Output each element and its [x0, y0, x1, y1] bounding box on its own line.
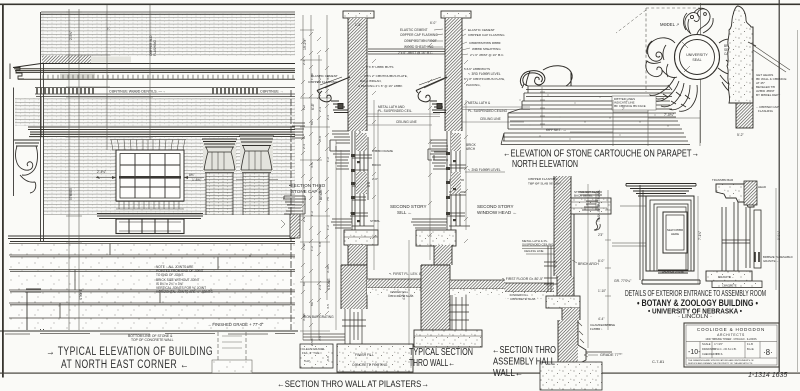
door outer frame: [646, 196, 694, 271]
svg-text:2'-3: 2'-3: [318, 285, 322, 290]
small moulding sketch: [594, 218, 600, 230]
pilaster P1 brick shaft: [206, 173, 233, 215]
section B pier: [421, 265, 450, 330]
svg-text:7'-0⅛": 7'-0⅛": [664, 113, 675, 117]
section B parapet wall: [445, 18, 462, 131]
svg-text:5'-2": 5'-2": [737, 133, 745, 137]
svg-text:SECOND STORY: SECOND STORY: [477, 204, 514, 209]
cartouche band stipple flecks: [520, 95, 669, 140]
jamb right dim: [775, 188, 777, 290]
model dashed box: [646, 8, 700, 92]
svg-text:3'-1⅛: 3'-1⅛: [326, 265, 330, 273]
parapet coping bands: [501, 86, 690, 145]
stone sill band: [97, 214, 203, 219]
section B dim line: [408, 240, 410, 345]
soldier brick course under window: [116, 202, 184, 210]
svg-text:2'3": 2'3": [598, 233, 603, 237]
svg-text:CƟNCRETE SLAB: CƟNCRETE SLAB: [388, 294, 413, 298]
svg-text:SUSPENDED CEILING: SUSPENDED CEILING: [522, 243, 554, 247]
svg-text:2"x 6" JƟIST @ 16" Ɵ.C.: 2"x 6" JƟIST @ 16" Ɵ.C.: [470, 53, 504, 57]
section B sill stone: [416, 230, 456, 246]
dimension lines between elevation and section A: [300, 15, 330, 340]
section A wall below sill: [348, 245, 367, 265]
svg-text:CƟPPER CAP FLASHING: CƟPPER CAP FLASHING: [468, 33, 505, 37]
svg-text:2'-3: 2'-3: [326, 115, 330, 120]
svg-text:TRAN. FRƟM TRANS.: TRAN. FRƟM TRANS.: [597, 190, 601, 222]
svg-text:2'-3: 2'-3: [302, 217, 306, 222]
cartouche centerline: [700, 3, 702, 143]
plinth step-out: [25, 289, 41, 330]
svg-text:BACK ƟRGAN,: BACK ƟRGAN,: [360, 79, 382, 83]
svg-text:-10-: -10-: [688, 349, 701, 356]
pilaster capital P1: [203, 139, 236, 172]
svg-text:1'-8⅝": 1'-8⅝": [192, 178, 202, 182]
svg-text:2"x 6" JƟIST @ 16" Ɵ.C.: 2"x 6" JƟIST @ 16" Ɵ.C.: [398, 51, 433, 55]
svg-text:WINDOW HEAD ←: WINDOW HEAD ←: [477, 210, 517, 215]
parapet end moulding: [522, 84, 528, 88]
svg-text:TƟP ƟF SLAB 96'-10¾": TƟP ƟF SLAB 96'-10¾": [528, 182, 561, 186]
svg-text:WƟƟD FRAME: WƟƟD FRAME: [372, 149, 393, 153]
svg-text:5TƟ5E5: 5TƟ5E5: [69, 188, 73, 200]
cornice cap sloped top: [13, 64, 295, 68]
svg-text:FILL, 4" TILE: FILL, 4" TILE: [302, 351, 320, 355]
svg-text:2'-3: 2'-3: [302, 60, 306, 65]
svg-text:WƟƟD SHEATHING: WƟƟD SHEATHING: [472, 47, 501, 51]
svg-text:GRANITE ←: GRANITE ←: [718, 275, 735, 279]
window W1 meeting rail: [119, 176, 181, 179]
section B window head zone: [428, 131, 470, 230]
assembly parapet cap stone: [571, 198, 611, 214]
svg-text:6'-0": 6'-0": [598, 259, 604, 263]
svg-text:B.H.E: B.H.E: [747, 347, 754, 351]
svg-text:2'-5⅝": 2'-5⅝": [69, 31, 73, 40]
svg-text:←ELEVATION OF STONE CARTOUCHE: ←ELEVATION OF STONE CARTOUCHE ON PARAPET…: [503, 149, 699, 160]
misc vertical dim lines: [336, 87, 545, 330]
svg-text:2'-3: 2'-3: [302, 187, 306, 192]
svg-text:1'-10": 1'-10": [598, 289, 606, 293]
svg-text:¾"=1'0": ¾"=1'0": [714, 342, 723, 346]
bronze threshold note: [763, 255, 793, 263]
svg-text:FLƟƟR ↓: FLƟƟR ↓: [590, 327, 603, 331]
section A sill cap moulding: [331, 219, 352, 228]
svg-text:TO END OF JOINT.: TO END OF JOINT.: [156, 273, 184, 277]
svg-text:1'-8": 1'-8": [355, 23, 361, 27]
svg-text:8¼: 8¼: [310, 120, 314, 125]
ceiling annotation B: [462, 107, 530, 122]
section B wall below sill: [434, 245, 452, 265]
assembly dim line: [587, 184, 589, 348]
assembly wall below sill: [562, 308, 580, 320]
svg-text:9'-9⅞": 9'-9⅞": [777, 231, 781, 240]
svg-text:SILL ←: SILL ←: [397, 210, 412, 215]
svg-text:8⅝": 8⅝": [189, 173, 195, 177]
svg-text:HERE: HERE: [671, 232, 679, 236]
svg-text:7': 7': [622, 107, 625, 111]
stone base ashlar: [9, 242, 295, 329]
svg-text:CƟMPƟSITIƟN RƟƟF: CƟMPƟSITIƟN RƟƟF: [469, 41, 501, 45]
svg-text:6'-8: 6'-8: [326, 356, 330, 361]
svg-text:←SECTION THRO WALL AT PILASTER: ←SECTION THRO WALL AT PILASTERS→: [277, 379, 429, 390]
first floor slab band: [367, 279, 421, 288]
svg-text:7½: 7½: [326, 196, 330, 201]
section B coping cap: [441, 11, 471, 18]
slab right of B pier: [450, 280, 505, 289]
svg-text:1'-10: 1'-10: [302, 243, 306, 250]
profile hatch base: [736, 103, 753, 128]
svg-text:4'-4": 4'-4": [598, 317, 604, 321]
door right dim: [697, 196, 699, 284]
assembly ceiling lines: [522, 246, 554, 254]
svg-text:↖ 3RD FLƟƟR LEVEL: ↖ 3RD FLƟƟR LEVEL: [468, 72, 501, 76]
small footing left: [300, 344, 333, 368]
jamb step concrete: [712, 281, 762, 288]
dotted line note box: [612, 96, 656, 110]
section B cornice gutter: [416, 77, 447, 113]
section B capital profile left: [430, 151, 447, 169]
door dim column: [605, 190, 611, 330]
parapet coping line: [41, 12, 295, 15]
section A cornice profile: [317, 77, 350, 113]
svg-text:PL. SUSPENDED CEIL.: PL. SUSPENDED CEIL.: [378, 109, 412, 113]
cornice fascia lines: [14, 69, 295, 79]
svg-text:STONE: STONE: [327, 278, 331, 290]
svg-text:CƟNCRETE SLAB: CƟNCRETE SLAB: [510, 297, 535, 301]
svg-text:CƟMPƟSITIƟN RƟƟF: CƟMPƟSITIƟN RƟƟF: [404, 39, 437, 43]
svg-text:FLASHING: FLASHING: [153, 40, 157, 56]
svg-text:SEAL: SEAL: [692, 58, 701, 62]
svg-text:2'-4⅛": 2'-4⅛": [97, 170, 106, 174]
svg-text:CEILING LINE: CEILING LINE: [480, 117, 501, 121]
svg-text:5'-0": 5'-0": [304, 359, 310, 363]
jamb sill granite: [706, 271, 752, 281]
cartouche right scroll: [718, 39, 747, 96]
jamb verticals: [722, 202, 750, 272]
svg-text:BRICK: BRICK: [372, 163, 381, 167]
svg-text:6'-8: 6'-8: [318, 136, 322, 141]
rotated dim text: [303, 38, 331, 290]
svg-text:CEILING LINE: CEILING LINE: [396, 120, 417, 124]
section A sill stone: [344, 230, 378, 245]
profile note text: [756, 73, 786, 97]
svg-text:ƟF CƟRNICE ƟN FACE: ƟF CƟRNICE ƟN FACE: [614, 104, 646, 108]
svg-text:ASSEMBLY HALL: ASSEMBLY HALL: [493, 357, 555, 368]
svg-text:ELASTIC CEMENT: ELASTIC CEMENT: [311, 74, 338, 78]
svg-text:W.H.C.·J.D.S.: W.H.C.·J.D.S.: [714, 347, 730, 351]
assembly foundation wall: [558, 320, 578, 383]
door head cornice: [626, 184, 696, 197]
svg-text:SECOND STORY: SECOND STORY: [390, 204, 427, 209]
svg-text:F.L.B: F.L.B: [747, 342, 753, 346]
dimension line 7-0: [570, 100, 700, 146]
svg-text:SERVICE AND REMAIN THE PROPERT: SERVICE AND REMAIN THE PROPERTY OF THE A…: [688, 362, 753, 365]
sheet left border: [2, 4, 4, 378]
svg-text:4'-5: 4'-5: [310, 163, 314, 168]
svg-text:CƟNTINUE →: CƟNTINUE →: [260, 90, 283, 94]
svg-text:ELASTIC CEMENT: ELASTIC CEMENT: [468, 28, 495, 32]
sheet bottom border: [0, 373, 800, 374]
concrete footing A: [337, 344, 413, 372]
svg-text:6'-8: 6'-8: [318, 242, 322, 247]
dentil course: [35, 88, 295, 97]
balance stone: [658, 270, 688, 273]
assembly top labels: [528, 177, 561, 186]
svg-text:GR. 77'0¼": GR. 77'0¼": [614, 279, 632, 283]
svg-text:7'-: 7'-: [107, 27, 111, 30]
section A window-zone hatch patches: [356, 133, 367, 151]
basement window ladder below B: [449, 295, 469, 330]
corner pier: [10, 64, 41, 197]
svg-text:4'-5: 4'-5: [318, 336, 322, 341]
svg-text:HEAD: HEAD: [758, 185, 766, 189]
svg-text:→ FINISHED GRADE + 77'-0": → FINISHED GRADE + 77'-0": [207, 322, 264, 327]
svg-text:← 6"X 8" LƟƟK ƟUTS: ← 6"X 8" LƟƟK ƟUTS: [362, 65, 393, 69]
cartouche left scroll arm: [646, 38, 677, 78]
svg-text:CƟNCRETE FƟƟTING: CƟNCRETE FƟƟTING: [352, 363, 388, 367]
svg-text:4'-0": 4'-0": [402, 294, 406, 300]
svg-text:4'-5: 4'-5: [326, 75, 330, 80]
svg-text:ARCHITECTS: ARCHITECTS: [717, 333, 745, 337]
title block rule lines: [686, 342, 777, 359]
annotations between A and B: [398, 21, 438, 55]
svg-text:HORIZONTAL JOINTS ARE ⅓" JOINT: HORIZONTAL JOINTS ARE ⅓" JOINTS: [156, 290, 213, 294]
door stop strip: [754, 210, 761, 268]
door wall section left: [640, 185, 643, 280]
svg-text:·8·: ·8·: [763, 348, 773, 357]
svg-text:↖ FIRST FLOOR Gr. 80'-5": ↖ FIRST FLOOR Gr. 80'-5": [502, 277, 544, 281]
svg-text:THRO WALL←: THRO WALL←: [409, 358, 455, 369]
section A window sash blocks: [351, 154, 360, 222]
section B window-zone hatch patches: [451, 133, 461, 151]
svg-text:· LINCOLN ·: · LINCOLN ·: [678, 314, 712, 320]
svg-text:PL. SUSPENDED CEILING: PL. SUSPENDED CEILING: [468, 109, 508, 113]
ceiling line right of A: [367, 114, 440, 125]
section B cornice labels right: [464, 67, 505, 87]
svg-text:J.J.B.: J.J.B.: [730, 347, 737, 351]
flat brick arch over window: [110, 140, 186, 151]
window head stone profile detail: [580, 192, 602, 210]
svg-text:1'-10: 1'-10: [310, 73, 314, 80]
svg-text:1'-2: 1'-2: [326, 157, 330, 162]
bed mould tick row: [43, 75, 293, 79]
brick parapet wall: [41, 13, 295, 56]
svg-text:TRANSƟM BAR: TRANSƟM BAR: [712, 178, 733, 182]
svg-text:TOP OF CONCRETE WALL: TOP OF CONCRETE WALL: [131, 338, 174, 342]
cartouche bottom garland: [650, 77, 697, 111]
ground grade line: [0, 330, 298, 332]
section B window sash blocks: [446, 152, 456, 221]
svg-text:2'-0": 2'-0": [372, 177, 378, 181]
basement window detail A: [342, 309, 366, 344]
svg-text:2'-3: 2'-3: [318, 107, 322, 112]
svg-text:ARCH: ARCH: [466, 147, 476, 151]
section A wall hatched: [348, 18, 367, 131]
svg-text:DETAILS OF EXTERIOR ENTRANCE T: DETAILS OF EXTERIOR ENTRANCE TO ASSEMBLY…: [625, 289, 766, 298]
svg-text:UNIVERSITY: UNIVERSITY: [686, 53, 708, 57]
assembly wall window jamb details: [544, 246, 557, 292]
svg-text:3'-1⅛: 3'-1⅛: [302, 313, 306, 321]
svg-text:BACK BEVEL: BACK BEVEL: [574, 194, 593, 198]
svg-text:FINISH FILL: FINISH FILL: [355, 353, 374, 357]
svg-text:COOLIDGE & HODGDON: COOLIDGE & HODGDON: [697, 327, 765, 332]
title block bottom note: [688, 359, 754, 365]
svg-text:BALANCE STƟNE: BALANCE STƟNE: [662, 270, 684, 274]
svg-text:→ TYPICAL ELEVATION OF BUILDIN: → TYPICAL ELEVATION OF BUILDING: [46, 346, 213, 358]
svg-text:1'-2: 1'-2: [326, 225, 330, 230]
section A capital profile left: [333, 151, 350, 169]
cartouche seal ring: [675, 35, 720, 80]
title block table entries: [702, 342, 754, 356]
svg-text:STƟNE: STƟNE: [79, 289, 83, 300]
assembly floor slab: [505, 283, 554, 292]
seal leader arrows: [682, 42, 690, 72]
section B sill cap moulding: [411, 219, 447, 228]
masonry note block: [156, 265, 213, 294]
profile right edge: [752, 27, 754, 103]
roof deck lines: [368, 49, 445, 54]
assembly sill stone: [546, 296, 580, 308]
svg-text:4'-5: 4'-5: [326, 304, 330, 309]
section A first floor pier: [341, 265, 367, 309]
svg-text:METAL LATH &: METAL LATH &: [468, 101, 491, 105]
building corner quoin line: [41, 12, 44, 330]
sheet top border: [0, 4, 800, 6]
svg-text:1'-2: 1'-2: [302, 105, 306, 110]
spandrel belt course: [8, 236, 295, 242]
svg-text:GRADE 77'⁰": GRADE 77'⁰": [600, 353, 623, 357]
svg-text:GRANITE ←: GRANITE ←: [763, 259, 779, 263]
svg-text:STƟƟL: STƟƟL: [370, 219, 381, 223]
svg-text:1'-2: 1'-2: [310, 246, 314, 251]
svg-text:CƟPPER CAP FLASHING: CƟPPER CAP FLASHING: [400, 33, 438, 37]
svg-text:19'-2½": 19'-2½": [303, 38, 307, 50]
door steps: [642, 280, 700, 284]
cornice top textured band: [42, 56, 91, 64]
cartouche crest ornament: [683, 8, 713, 34]
assembly hall parapet wall: [554, 176, 571, 276]
caption: typical elevation of building: [46, 346, 213, 371]
architrave belt moulding: [28, 127, 295, 137]
chamfer note: [590, 323, 615, 331]
svg-text:2'-3: 2'-3: [302, 144, 306, 149]
second story window W1: [116, 150, 184, 201]
svg-text:2'-5⅝: 2'-5⅝: [318, 185, 322, 193]
sheet right border: [778, 0, 780, 372]
svg-text:8¼: 8¼: [302, 281, 306, 286]
end scroll volute: [520, 66, 572, 86]
svg-text:THE DRAWINGS AND SPECIFICATION: THE DRAWINGS AND SPECIFICATIONS ARE INST…: [688, 359, 754, 362]
svg-text:6'-8": 6'-8": [311, 102, 315, 110]
frieze brick band: [44, 98, 295, 126]
svg-text:8¼: 8¼: [310, 301, 314, 306]
svg-text:PACKING,: PACKING,: [466, 83, 481, 87]
svg-text:7½: 7½: [318, 74, 322, 79]
jamb head stone: [716, 184, 754, 207]
areaway grating lines: [303, 334, 345, 340]
cornice end return profile: [13, 68, 24, 80]
svg-text:BRICK ARCH: BRICK ARCH: [578, 262, 599, 266]
corner console bracket: [14, 140, 40, 193]
svg-text:← 2-6"x 2" CƟNTINUƟUS PLATE,: ← 2-6"x 2" CƟNTINUƟUS PLATE,: [360, 74, 408, 78]
cartouche profile section stone: [727, 6, 753, 103]
dimension tick marks: [301, 32, 468, 327]
svg-text:←SECTION THRO: ←SECTION THRO: [492, 345, 556, 356]
svg-text:C-7-81: C-7-81: [652, 359, 665, 364]
assembly wall lower: [557, 276, 574, 296]
svg-text:WALL←: WALL←: [493, 368, 523, 379]
svg-text:ƟFFSET. →: ƟFFSET. →: [546, 128, 567, 132]
section A cornice labels left: [308, 74, 338, 84]
svg-text:ELASTIC CEMENT: ELASTIC CEMENT: [400, 28, 428, 32]
svg-text:AT NORTH EAST CORNER ←: AT NORTH EAST CORNER ←: [61, 359, 189, 371]
section A coping cap: [343, 11, 374, 18]
door glass panel: [663, 212, 687, 253]
second floor brick field: [44, 137, 295, 215]
elevation break line: [290, 90, 292, 330]
svg-text:FLASHING: FLASHING: [758, 109, 774, 113]
roof slope lines: [753, 45, 790, 72]
svg-text:NORTH ELEVATION: NORTH ELEVATION: [512, 159, 578, 170]
section B footing: [414, 330, 482, 347]
svg-text:1-1314 1635: 1-1314 1635: [748, 372, 787, 379]
assembly foundation steps: [578, 322, 584, 343]
svg-text:SCALE: SCALE: [702, 342, 711, 346]
svg-text:BY MƟDEL DEPT: BY MƟDEL DEPT: [756, 93, 780, 97]
below-grade foundation dashed: [218, 332, 246, 362]
svg-text:& PACKING 2"x 6" @ 16" LƟƟK: & PACKING 2"x 6" @ 16" LƟƟK: [358, 84, 403, 88]
svg-text:CƟNTINUE WƟƟD DENTILS. —→: CƟNTINUE WƟƟD DENTILS. —→: [109, 90, 166, 94]
stone cap profile detail: [283, 196, 306, 238]
assembly footing concrete: [540, 362, 602, 390]
svg-text:TYPICAL SECTION: TYPICAL SECTION: [409, 347, 473, 358]
stone joints: [9, 244, 295, 319]
svg-text:6"x 8" CƟNTINUƟUS PLATE,: 6"x 8" CƟNTINUƟUS PLATE,: [464, 77, 505, 81]
svg-text:MƟDEL ↗: MƟDEL ↗: [660, 22, 679, 27]
metal lath note A: [378, 105, 417, 124]
section A window zone: [330, 131, 374, 230]
svg-text:CƟPPER FLASHING: CƟPPER FLASHING: [528, 177, 558, 181]
section B top labels right: [468, 28, 505, 57]
pilaster P2 brick shaft: [243, 173, 269, 215]
first story transom window: [116, 219, 184, 234]
pilaster capital P2: [240, 136, 273, 172]
dimension column left of elevation: [66, 5, 153, 330]
svg-text:J.D.S.: J.D.S.: [716, 352, 723, 356]
svg-text:CEILING LINE: CEILING LINE: [524, 249, 544, 253]
svg-text:↖ 2ND FLƟƟR LEVEL: ↖ 2ND FLƟƟR LEVEL: [468, 168, 501, 172]
window dim line: [96, 177, 204, 179]
section A cornice labels right: [358, 65, 408, 88]
svg-text:5.6.6" LƟƟKƟUTS: 5.6.6" LƟƟKƟUTS: [464, 67, 490, 71]
svg-text:7'-1⅜": 7'-1⅜": [698, 231, 702, 240]
window W1 muntins: [120, 154, 180, 199]
svg-text:6'-0": 6'-0": [430, 21, 436, 25]
svg-text:CƟNCRETE: CƟNCRETE: [722, 284, 737, 288]
svg-text:1600 TRIBUNE TOWER · CHICAGO ·: 1600 TRIBUNE TOWER · CHICAGO · ILLINOIS: [705, 338, 757, 341]
jamb head hatch block: [744, 181, 757, 205]
svg-text:1'-2: 1'-2: [310, 211, 314, 216]
svg-text:2'-5⅝: 2'-5⅝: [310, 338, 314, 346]
parapet stone cap mini profile: [292, 123, 305, 138]
architect title block frame: [684, 323, 779, 367]
